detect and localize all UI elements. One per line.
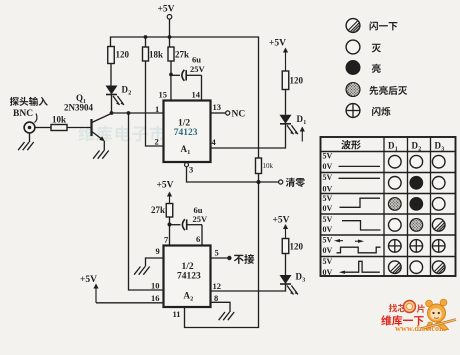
node clear — [256, 180, 260, 184]
wire pin8 ground — [211, 302, 231, 312]
LED D3 — [280, 275, 292, 284]
ground (pin9) — [143, 267, 149, 275]
wire pin4 to D1 — [211, 124, 286, 148]
svg-text:5V: 5V — [323, 152, 333, 161]
node D2-collector — [110, 111, 114, 115]
resistor R 120 (D2 branch) — [108, 47, 115, 64]
svg-text:27k: 27k — [175, 50, 189, 60]
svg-text:5: 5 — [215, 248, 219, 258]
op IC U A1 1/2 74123 — [164, 101, 211, 163]
ground (pin8) — [228, 312, 234, 320]
svg-text:10k: 10k — [263, 162, 274, 170]
svg-text:74123: 74123 — [174, 128, 198, 138]
svg-text:10k: 10k — [52, 115, 66, 125]
capacitor 6u 25V (A2) — [170, 224, 181, 226]
svg-text:15: 15 — [159, 90, 168, 100]
wire — [170, 61, 172, 75]
svg-text:18k: 18k — [149, 50, 163, 60]
LED D2 — [106, 86, 118, 95]
svg-text:10: 10 — [151, 281, 160, 291]
wire pin9 to ground — [146, 258, 164, 267]
wire pin16 +5V — [96, 302, 164, 304]
svg-text:NC: NC — [232, 110, 246, 120]
resistor R 27k (A1) — [169, 37, 171, 47]
svg-text:+5V: +5V — [273, 216, 290, 226]
wire pin13 NC — [211, 112, 226, 114]
wire — [169, 19, 171, 37]
wire — [111, 95, 113, 114]
ghost watermark — [78, 125, 94, 141]
wire pin5 NC terminal — [211, 257, 229, 259]
svg-text:0V: 0V — [323, 185, 333, 194]
svg-text:Q: Q — [76, 93, 83, 103]
svg-text:BNC: BNC — [13, 109, 33, 119]
wire collector node to pin1 — [112, 112, 164, 114]
svg-text:74123: 74123 — [177, 272, 201, 282]
table frame — [321, 137, 456, 276]
wire clear down to pin11 — [185, 182, 259, 328]
wire 18k to pin2 — [146, 61, 164, 146]
svg-text:1/2: 1/2 — [182, 262, 194, 272]
ground (emitter) — [102, 151, 108, 159]
wire pin3 to clear node — [185, 163, 189, 167]
svg-text:+5V: +5V — [269, 39, 286, 49]
wire pin12 to D3 — [211, 284, 286, 291]
resistor R 120 (D3) — [282, 239, 289, 254]
svg-text:0V: 0V — [323, 225, 333, 234]
resistor R 18k — [145, 37, 147, 47]
svg-text:14: 14 — [192, 90, 201, 100]
svg-text:12: 12 — [213, 281, 222, 291]
op IC U A2 1/2 74123 — [164, 246, 211, 308]
resistor R 120 (D1) — [282, 71, 289, 90]
wire clear terminal — [259, 181, 279, 183]
svg-text:16: 16 — [151, 293, 160, 303]
svg-text:0V: 0V — [323, 246, 333, 255]
legend: off symbol — [346, 40, 360, 54]
svg-text:1: 1 — [395, 146, 398, 152]
node cap junction — [169, 73, 173, 77]
wire collector junction down to A2 pin10 — [129, 113, 164, 290]
svg-text:+5V: +5V — [158, 5, 175, 15]
svg-text:0V: 0V — [323, 162, 333, 171]
svg-text:2N3904: 2N3904 — [64, 103, 93, 113]
node rail-27k — [168, 35, 172, 39]
node collector-down — [127, 111, 131, 115]
ground (BNC) — [29, 133, 31, 142]
svg-text:3: 3 — [302, 278, 305, 284]
capacitor 6u 25V (A1) — [171, 74, 180, 76]
svg-text:9: 9 — [156, 246, 160, 256]
svg-text:6: 6 — [196, 234, 200, 244]
svg-text:3: 3 — [189, 165, 193, 175]
legend: blink symbol — [346, 104, 360, 118]
svg-text:5V: 5V — [323, 173, 333, 182]
node rail-18k — [144, 35, 148, 39]
legend: on symbol — [346, 61, 360, 75]
svg-text:5V: 5V — [323, 194, 333, 203]
svg-text:1: 1 — [187, 150, 190, 156]
svg-text:25V: 25V — [193, 214, 209, 224]
table header — [341, 140, 350, 149]
svg-text:2: 2 — [190, 297, 193, 303]
svg-text:120: 120 — [290, 76, 304, 86]
svg-text:13: 13 — [213, 102, 222, 112]
svg-text:25V: 25V — [190, 64, 206, 74]
svg-text:2: 2 — [128, 91, 131, 97]
svg-text:120: 120 — [290, 242, 304, 252]
watermark logo — [389, 304, 398, 312]
svg-text:8: 8 — [214, 293, 218, 303]
node cap junction A2 — [168, 223, 172, 227]
svg-text:11: 11 — [173, 309, 181, 319]
svg-text:0V: 0V — [323, 204, 333, 213]
BNC connector — [10, 97, 19, 106]
svg-text:120: 120 — [116, 50, 130, 60]
resistor R 10k (clear pull-up) — [256, 158, 262, 174]
svg-text:27k: 27k — [151, 205, 165, 215]
svg-text:+5V: +5V — [80, 275, 97, 285]
svg-text:5V: 5V — [323, 235, 333, 244]
wire — [110, 64, 112, 86]
svg-text:3: 3 — [441, 146, 444, 152]
svg-text:1/2: 1/2 — [178, 119, 190, 129]
svg-text:2: 2 — [155, 137, 159, 147]
svg-text:5V: 5V — [323, 257, 333, 266]
svg-text:1: 1 — [303, 120, 306, 126]
svg-text:+5V: +5V — [157, 181, 174, 191]
svg-text:2: 2 — [418, 146, 421, 152]
LED D1 — [280, 115, 292, 124]
wire +5V rail — [111, 37, 259, 158]
svg-text:5V: 5V — [323, 215, 333, 224]
resistor R 27k (A2) — [166, 204, 173, 218]
svg-text:0V: 0V — [323, 268, 333, 277]
